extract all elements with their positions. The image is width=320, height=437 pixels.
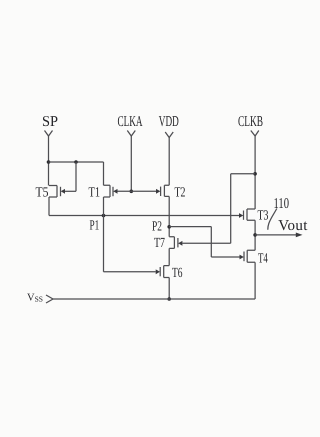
- wire node P1 horizontal: [49, 215, 239, 217]
- node Vout dot: [253, 233, 257, 237]
- svg-text:Vout: Vout: [278, 218, 308, 234]
- node P2 dot: [167, 225, 171, 229]
- svg-text:T1: T1: [89, 185, 101, 200]
- wire CLKB vertical: [254, 136, 256, 209]
- wire P2 riser to T4 gate: [210, 227, 212, 257]
- node P1 dot: [102, 214, 106, 218]
- node T5 gate junction dot: [74, 160, 78, 164]
- svg-text:T6: T6: [172, 266, 183, 281]
- svg-text:T7: T7: [154, 236, 165, 251]
- wire T3 source to T4 drain: [254, 220, 256, 250]
- wire gate bus T1-T2: [118, 190, 157, 192]
- terminal CLKB: [251, 131, 259, 137]
- transistor T7: [169, 237, 182, 249]
- wire row-162 horizontal: [49, 161, 104, 163]
- node CLKB branch dot: [253, 172, 257, 176]
- node CLKA gate junction dot: [130, 190, 134, 194]
- wire T7 source to T6 drain: [168, 248, 170, 265]
- svg-text:T4: T4: [258, 251, 268, 266]
- wire T6 gate horizontal: [104, 271, 156, 273]
- svg-text:SP: SP: [42, 114, 58, 130]
- wire T2 source to T7 drain: [168, 196, 170, 236]
- transistor T1: [104, 185, 118, 197]
- wire Vss horizontal: [53, 298, 255, 300]
- transistor T2: [156, 185, 169, 196]
- transistor T3: [239, 209, 255, 220]
- node T6-Vss junction dot: [167, 297, 171, 301]
- svg-text:T3: T3: [258, 208, 269, 223]
- svg-text:T2: T2: [175, 186, 186, 201]
- wire P1 drop to T6 gate: [103, 216, 105, 272]
- svg-text:CLKA: CLKA: [118, 114, 143, 130]
- svg-text:T5: T5: [36, 185, 49, 200]
- wire CLKB branch drop to T7 gate: [230, 174, 232, 244]
- wire T1 source drop: [103, 197, 105, 216]
- wire SP vertical: [48, 136, 50, 186]
- wire P2 horizontal: [169, 226, 211, 228]
- terminal SP: [45, 131, 53, 137]
- wire T1 drain drop: [103, 162, 105, 185]
- svg-text:CLKB: CLKB: [238, 114, 263, 130]
- wire T5 gate riser: [75, 162, 77, 191]
- transistor T5: [49, 186, 76, 198]
- svg-text:VSS: VSS: [27, 292, 43, 303]
- wire T4 source drop to Vss: [254, 262, 256, 299]
- transistor T4: [240, 250, 256, 262]
- terminal Vss: [46, 295, 53, 303]
- wire CLKB branch horizontal: [231, 173, 255, 175]
- wire T5 source drop: [48, 197, 50, 216]
- wire T6 source drop to Vss: [168, 278, 170, 300]
- svg-text:P2: P2: [152, 219, 162, 234]
- wire VDD vertical: [168, 138, 170, 186]
- wire Vout horizontal: [255, 234, 296, 236]
- wire T4 gate horizontal: [211, 256, 239, 258]
- terminal VDD: [165, 132, 173, 138]
- arrowhead Vout: [296, 233, 303, 238]
- transistor T6: [156, 266, 170, 278]
- svg-text:VDD: VDD: [159, 114, 179, 130]
- wire CLKA vertical: [130, 136, 132, 191]
- node SP junction dot: [47, 160, 51, 164]
- svg-text:P1: P1: [90, 219, 100, 234]
- terminal CLKA: [127, 131, 135, 137]
- wire T7 gate horizontal: [182, 242, 230, 244]
- leader line 110: [268, 209, 277, 230]
